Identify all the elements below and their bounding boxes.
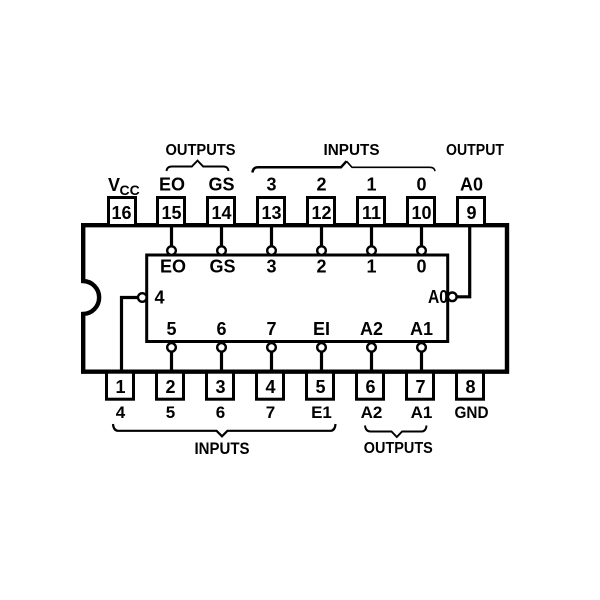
svg-text:CC: CC — [120, 182, 140, 198]
label 0 inside — [416, 257, 426, 277]
svg-text:7: 7 — [415, 377, 425, 397]
svg-text:3: 3 — [266, 257, 276, 277]
svg-text:9: 9 — [466, 203, 476, 223]
label 2 pin 12 — [316, 175, 326, 195]
svg-text:A0: A0 — [428, 287, 448, 307]
pin 5 — [307, 372, 334, 399]
svg-text:7: 7 — [266, 319, 276, 339]
svg-text:A2: A2 — [361, 403, 383, 422]
svg-text:0: 0 — [416, 175, 426, 195]
svg-text:GS: GS — [209, 257, 235, 277]
label 1 inside — [366, 257, 376, 277]
label INPUTS top — [324, 142, 380, 159]
pin 3 — [207, 372, 234, 399]
brace outputs top — [167, 161, 229, 171]
label 5 pin 2 — [166, 403, 175, 422]
svg-text:3: 3 — [215, 377, 225, 397]
node GS pin 14 — [217, 246, 226, 255]
svg-text:2: 2 — [165, 377, 175, 397]
node 6 pin 3 — [217, 343, 226, 352]
svg-text:A2: A2 — [360, 319, 383, 339]
wire pin 6 stub — [370, 352, 373, 373]
wire pin 7 stub — [420, 352, 423, 373]
svg-text:OUTPUTS: OUTPUTS — [166, 142, 236, 159]
node EI pin 5 — [317, 343, 326, 352]
label A0 inside — [428, 287, 448, 307]
pin 12 — [308, 198, 335, 226]
svg-text:12: 12 — [311, 203, 331, 223]
label GS pin 14 — [208, 175, 234, 195]
node EO pin 15 — [167, 246, 176, 255]
pin 15 — [158, 198, 185, 226]
wire pin 4 stub — [270, 352, 273, 373]
label EO pin 15 — [159, 175, 185, 195]
label OUTPUTS bottom — [364, 440, 433, 457]
svg-text:0: 0 — [416, 257, 426, 277]
label VCC pin 16 — [108, 175, 140, 198]
label A1 pin 7 — [411, 403, 433, 422]
pin 8 — [457, 372, 484, 399]
label 6 inside — [216, 319, 226, 339]
pin 2 — [157, 372, 184, 399]
label GS inside — [209, 257, 235, 277]
label A2 pin 6 — [361, 403, 383, 422]
pin 13 — [258, 198, 285, 226]
node input 4 pin 1 — [138, 293, 147, 302]
label OUTPUT top — [446, 142, 504, 159]
wire pin 15 stub — [170, 225, 173, 246]
svg-text:1: 1 — [115, 377, 125, 397]
label 0 pin 10 — [416, 175, 426, 195]
wire pin 10 stub — [420, 225, 423, 246]
svg-text:EO: EO — [160, 257, 186, 277]
label 5 inside — [166, 319, 176, 339]
node 7 pin 4 — [267, 343, 276, 352]
node output A0 pin 9 — [448, 293, 457, 302]
svg-text:5: 5 — [166, 319, 176, 339]
svg-text:4: 4 — [154, 288, 164, 308]
svg-text:3: 3 — [266, 175, 276, 195]
svg-text:6: 6 — [216, 403, 225, 422]
svg-text:E1: E1 — [311, 403, 332, 422]
label 3 inside — [266, 257, 276, 277]
node 1 pin 11 — [367, 246, 376, 255]
svg-text:GS: GS — [208, 175, 234, 195]
label 7 pin 4 — [266, 403, 275, 422]
brace inputs top right half — [347, 161, 436, 171]
label 2 inside — [316, 257, 326, 277]
pin 1 — [107, 372, 134, 399]
node A2 pin 6 — [367, 343, 376, 352]
pin 6 — [357, 372, 384, 399]
pin 14 — [208, 198, 235, 226]
label EO inside — [160, 257, 186, 277]
pin 9 — [458, 198, 485, 226]
node 2 pin 12 — [317, 246, 326, 255]
svg-text:11: 11 — [362, 203, 381, 223]
pin 16 — [109, 198, 136, 226]
svg-text:EO: EO — [159, 175, 185, 195]
svg-text:8: 8 — [465, 377, 475, 397]
svg-text:A1: A1 — [410, 319, 433, 339]
node 5 pin 2 — [167, 343, 176, 352]
label INPUTS bottom — [195, 439, 250, 458]
label EI inside — [313, 319, 330, 339]
inner logic block — [147, 255, 448, 342]
brace inputs bottom — [113, 424, 336, 436]
label OUTPUTS top — [166, 142, 236, 159]
node 0 pin 10 — [417, 246, 426, 255]
brace outputs bottom — [365, 426, 427, 438]
svg-text:2: 2 — [316, 175, 326, 195]
svg-text:14: 14 — [211, 203, 231, 223]
pin 11 — [358, 198, 385, 226]
svg-text:4: 4 — [116, 403, 126, 422]
svg-text:15: 15 — [161, 203, 181, 223]
svg-text:INPUTS: INPUTS — [195, 439, 250, 458]
svg-text:4: 4 — [265, 377, 275, 397]
wire pin 12 stub — [320, 225, 323, 246]
svg-text:OUTPUTS: OUTPUTS — [364, 440, 433, 457]
svg-text:1: 1 — [366, 175, 376, 195]
label E1 pin 5 — [311, 403, 332, 422]
label 6 pin 3 — [216, 403, 225, 422]
svg-text:13: 13 — [261, 203, 281, 223]
label 4 pin 1 — [116, 403, 126, 422]
label 3 pin 13 — [266, 175, 276, 195]
svg-text:GND: GND — [455, 403, 489, 422]
svg-text:A0: A0 — [460, 175, 483, 195]
svg-text:5: 5 — [315, 377, 325, 397]
wire pin 11 stub — [370, 225, 373, 246]
svg-text:16: 16 — [111, 203, 131, 223]
wire pin 2 stub — [170, 352, 173, 373]
svg-text:EI: EI — [313, 319, 330, 339]
brace inputs top left half — [253, 161, 347, 172]
svg-text:A1: A1 — [411, 403, 433, 422]
wire pin 13 stub — [270, 225, 273, 246]
wire pin 3 stub — [220, 352, 223, 373]
wire pin 14 stub — [220, 225, 223, 246]
pin 7 — [407, 372, 434, 399]
svg-text:V: V — [108, 175, 120, 195]
label A1 inside — [410, 319, 433, 339]
wire pin 9 to output A0 — [457, 225, 470, 297]
svg-text:6: 6 — [216, 319, 226, 339]
label GND pin 8 — [455, 403, 489, 422]
pin 4 — [257, 372, 284, 399]
node 3 pin 13 — [267, 246, 276, 255]
label A0 pin 9 — [460, 175, 483, 195]
svg-text:2: 2 — [316, 257, 326, 277]
wire pin 1 to input 4 — [122, 298, 138, 373]
pin 10 — [408, 198, 435, 226]
svg-text:10: 10 — [411, 203, 431, 223]
node A1 pin 7 — [417, 343, 426, 352]
svg-text:OUTPUT: OUTPUT — [446, 142, 504, 159]
svg-text:1: 1 — [366, 257, 376, 277]
label A2 inside — [360, 319, 383, 339]
label 1 pin 11 — [366, 175, 376, 195]
wire pin 5 stub — [320, 352, 323, 373]
svg-text:6: 6 — [365, 377, 375, 397]
IC body U1 — [83, 225, 507, 372]
label 4 inside — [154, 288, 164, 308]
svg-text:7: 7 — [266, 403, 275, 422]
svg-text:5: 5 — [166, 403, 175, 422]
svg-text:INPUTS: INPUTS — [324, 142, 380, 159]
label 7 inside — [266, 319, 276, 339]
